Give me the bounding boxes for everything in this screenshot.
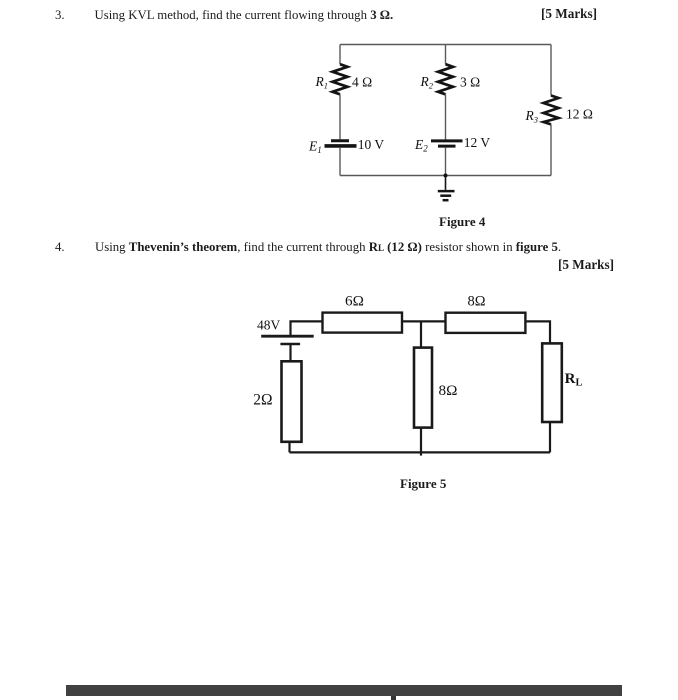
svg-text:4 Ω: 4 Ω — [352, 75, 372, 90]
footer shadow band — [66, 685, 622, 696]
wire: bottom bus — [290, 451, 551, 453]
wire: battery top stub to 6-ohm resistor — [291, 321, 323, 335]
wire: RL to bottom bus — [549, 422, 551, 452]
wire: R2 to E2 — [445, 94, 447, 139]
wire: 6-ohm to 8-ohm top bus with middle tap — [402, 320, 446, 322]
wire: E2 to bottom bus — [445, 148, 447, 176]
figure 5 schematic — [240, 280, 600, 460]
svg-text:6Ω: 6Ω — [345, 293, 364, 310]
wire: middle branch tap down — [420, 321, 422, 347]
svg-text:R1: R1 — [315, 74, 329, 91]
svg-text:R3: R3 — [525, 108, 539, 125]
resistor R1 — [333, 64, 348, 94]
resistor RL box — [542, 343, 562, 422]
wire: top bus from node A to node C — [340, 44, 551, 46]
figure 4 caption — [439, 215, 485, 228]
svg-text:RL: RL — [565, 371, 583, 389]
resistor 2-ohm box — [282, 361, 302, 442]
wire: 2-ohm to bottom bus corner — [288, 442, 290, 453]
resistor R2 — [438, 64, 453, 94]
node: junction dot at ground tap — [444, 174, 448, 178]
question 3 marks — [541, 7, 597, 20]
resistor R3 — [544, 96, 559, 125]
svg-text:E2: E2 — [414, 137, 428, 154]
svg-text:2Ω: 2Ω — [253, 392, 272, 409]
wire: 8-ohm box to right corner — [525, 321, 550, 343]
wire: E1 to bottom bus — [339, 148, 341, 176]
question 3 text — [95, 9, 394, 22]
question 4 number — [55, 241, 65, 254]
resistor 6-ohm box — [323, 313, 403, 333]
svg-text:12 Ω: 12 Ω — [566, 107, 593, 122]
svg-text:48V: 48V — [257, 318, 281, 333]
question 4 marks — [558, 258, 614, 271]
svg-text:R2: R2 — [420, 74, 434, 91]
ground — [438, 191, 455, 200]
wire: battery bottom stub — [289, 344, 291, 361]
svg-text:8Ω: 8Ω — [439, 382, 458, 399]
figure 4 schematic — [300, 30, 610, 215]
wire: bottom bus — [340, 175, 551, 177]
svg-text:8Ω: 8Ω — [468, 294, 486, 310]
figure 5 caption — [400, 477, 446, 490]
battery 48V — [261, 336, 314, 344]
wire: R1 to E1 — [339, 94, 341, 139]
wire: left branch top (node A down to R1) — [339, 45, 341, 65]
wire: right branch top (node C down to R3) — [550, 45, 552, 96]
svg-text:10 V: 10 V — [358, 137, 385, 152]
battery E2 — [431, 141, 463, 146]
wire: middle box to bottom bus — [420, 428, 422, 456]
wire: middle branch top (node B down to R2) — [445, 45, 447, 65]
wire: R3 to bottom bus — [550, 124, 552, 175]
question 4 text — [95, 241, 561, 255]
svg-text:E1: E1 — [308, 139, 322, 156]
wire: ground stub — [445, 176, 447, 190]
question 3 number — [55, 9, 65, 22]
battery E1 — [325, 141, 357, 146]
resistor 8-ohm top box — [446, 313, 526, 333]
svg-text:3 Ω: 3 Ω — [460, 75, 480, 90]
svg-text:12 V: 12 V — [464, 135, 491, 150]
resistor 8-ohm middle box — [414, 348, 432, 428]
